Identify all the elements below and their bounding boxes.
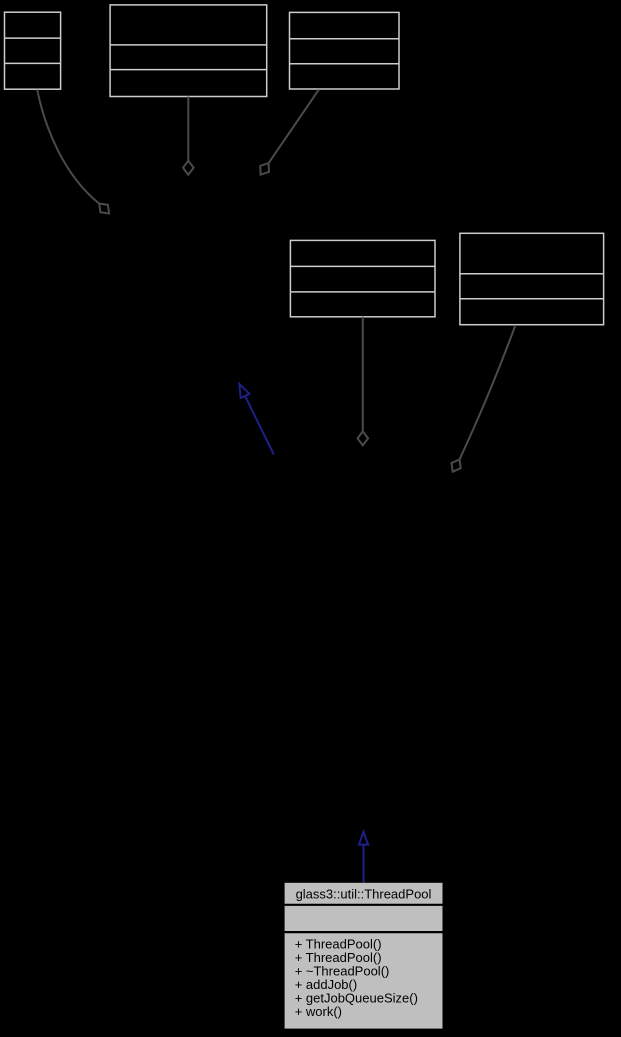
inheritance arrow A1 (blue, middle) (245, 397, 273, 455)
hollow arrowhead of A2 (359, 832, 368, 845)
open diamond arrowhead D2 (183, 161, 194, 175)
hollow arrowhead of A1 (239, 384, 249, 398)
inheritance arrow A2 (blue, to ThreadPool) (363, 845, 365, 883)
aggregation edge E1 (curved, from box B1) (37, 90, 99, 204)
aggregation edge E5 (slightly curved, from box B5) (460, 325, 516, 459)
class box B1 (top-left, empty) (5, 12, 61, 89)
class box glass3::util::ThreadPool (main node) (285, 883, 443, 1029)
svg-text:+ work(): + work() (295, 1004, 342, 1019)
class box B5 (mid-right, empty) (460, 233, 604, 324)
aggregation edge E2 (vertical, from box B2) (187, 97, 189, 161)
open diamond arrowhead D3 (260, 163, 269, 175)
open diamond arrowhead D5 (452, 460, 461, 472)
class box B3 (top-right, empty) (290, 12, 400, 89)
class box B2 (top-middle, empty) (110, 5, 267, 97)
class box B4 (mid-left, empty) (290, 240, 435, 316)
svg-text:glass3::util::ThreadPool: glass3::util::ThreadPool (296, 887, 432, 902)
open diamond arrowhead D4 (358, 431, 369, 445)
aggregation edge E4 (vertical, from box B4) (362, 317, 364, 432)
open diamond arrowhead D1 (99, 204, 109, 214)
aggregation edge E3 (from box B3) (269, 90, 319, 164)
